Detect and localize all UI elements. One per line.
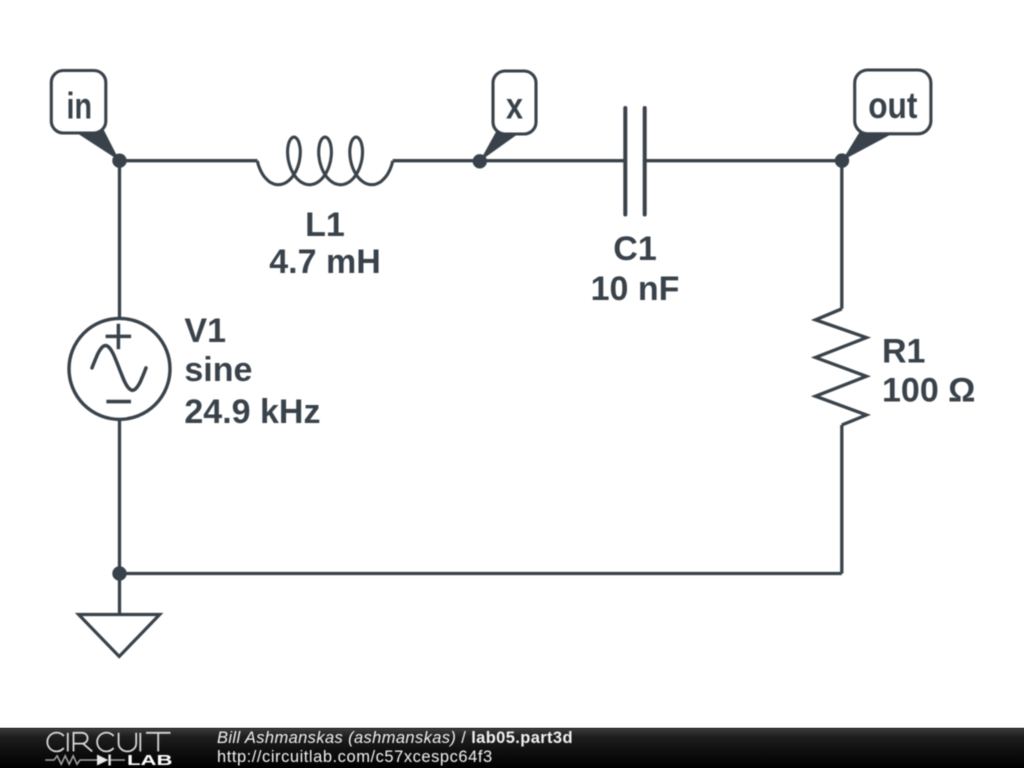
svg-text:R1: R1 bbox=[882, 332, 925, 370]
svg-text:10 nF: 10 nF bbox=[591, 270, 680, 308]
svg-text:4.7 mH: 4.7 mH bbox=[269, 243, 381, 281]
svg-text:100 Ω: 100 Ω bbox=[882, 372, 975, 410]
svg-text:out: out bbox=[868, 85, 917, 126]
svg-text:in: in bbox=[67, 85, 93, 126]
svg-text:V1: V1 bbox=[184, 312, 226, 350]
svg-text:x: x bbox=[506, 85, 523, 126]
svg-text:C1: C1 bbox=[613, 230, 656, 268]
svg-text:24.9 kHz: 24.9 kHz bbox=[184, 393, 320, 431]
svg-text:LAB: LAB bbox=[127, 752, 173, 768]
svg-text:sine: sine bbox=[184, 351, 252, 389]
svg-text:L1: L1 bbox=[305, 206, 345, 244]
